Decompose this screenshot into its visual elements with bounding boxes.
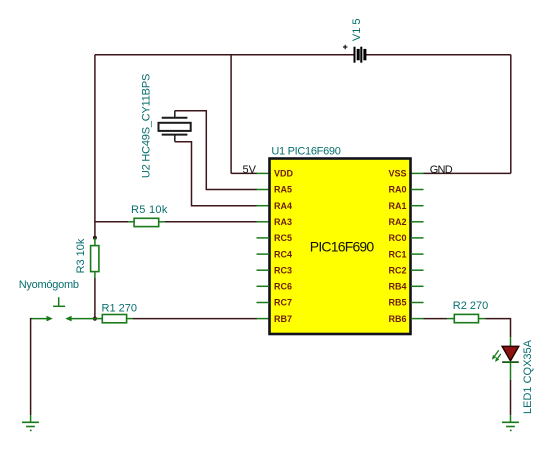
svg-text:RA1: RA1 xyxy=(388,201,406,211)
pin stub RA5 xyxy=(257,189,270,191)
pin stub RA1 xyxy=(411,205,424,207)
crystal bottom plate xyxy=(162,134,188,136)
ground symbol left xyxy=(22,422,39,430)
crystal top plate xyxy=(162,117,188,119)
resistor R1 right pin xyxy=(127,318,133,320)
LED cathode pin xyxy=(510,362,512,380)
pin stub RB6 xyxy=(411,318,424,320)
svg-text:VDD: VDD xyxy=(274,169,294,179)
pushbutton left contact xyxy=(31,316,53,322)
battery plate short xyxy=(363,49,366,60)
wire crystal bottom to RA4 xyxy=(175,142,257,206)
resistor R2 xyxy=(454,314,478,322)
wire rail to R5 xyxy=(95,221,128,223)
wire top rail left (battery + to left rail) xyxy=(95,54,355,56)
svg-text:RB5: RB5 xyxy=(388,298,406,308)
resistor R3 top pin xyxy=(94,238,96,246)
resistor R3 bottom pin xyxy=(94,272,96,278)
crystal top pin xyxy=(174,111,176,118)
svg-text:U2 HC49S_CY11BPS: U2 HC49S_CY11BPS xyxy=(140,74,152,178)
pin stub VDD xyxy=(257,172,270,174)
wire R5 to RA3 xyxy=(165,221,257,223)
resistor R2 left pin xyxy=(447,318,454,320)
pin stub RC5 xyxy=(257,237,270,239)
svg-text:RA2: RA2 xyxy=(388,217,406,227)
battery V1 xyxy=(355,47,365,63)
wire R1 to RB7 xyxy=(133,318,257,320)
pin stub RC3 xyxy=(257,269,270,271)
ground pin right xyxy=(510,415,512,422)
svg-text:PIC16F690: PIC16F690 xyxy=(310,238,375,254)
svg-text:V1 5: V1 5 xyxy=(351,18,363,41)
pushbutton right contact xyxy=(65,316,95,322)
svg-text:R1 270: R1 270 xyxy=(102,302,137,314)
resistor R2 right pin xyxy=(479,318,486,320)
svg-text:U1 PIC16F690: U1 PIC16F690 xyxy=(271,146,340,158)
battery plate short - xyxy=(357,49,360,60)
svg-text:RC0: RC0 xyxy=(388,233,406,243)
pin stub RA2 xyxy=(411,221,424,223)
pin stub RB7 xyxy=(257,318,270,320)
battery plate long xyxy=(360,47,362,63)
ground symbol right xyxy=(502,422,519,430)
pin stub RC7 xyxy=(257,302,270,304)
svg-text:5V: 5V xyxy=(243,164,257,176)
crystal body xyxy=(159,123,191,131)
svg-text:RC4: RC4 xyxy=(274,249,292,259)
svg-text:RC5: RC5 xyxy=(274,233,292,243)
svg-text:R3 10k: R3 10k xyxy=(75,238,87,273)
resistor R5 right pin xyxy=(159,221,165,223)
wire button to ground xyxy=(30,319,33,416)
wire 5V to VDD pin xyxy=(231,172,257,174)
svg-text:GND: GND xyxy=(430,164,453,176)
wire R3 to button junction xyxy=(94,278,96,319)
svg-text:RA3: RA3 xyxy=(274,217,292,227)
LED arrow 2 xyxy=(495,354,501,362)
crystal U2 xyxy=(159,111,191,142)
resistor R3 xyxy=(91,246,99,272)
svg-text:RC2: RC2 xyxy=(388,265,406,275)
wire left rail down xyxy=(94,55,96,238)
ground pin left xyxy=(30,415,32,422)
svg-text:RC6: RC6 xyxy=(274,282,292,292)
wire LED to ground xyxy=(510,380,512,415)
crystal bottom pin xyxy=(174,135,176,142)
svg-text:RB6: RB6 xyxy=(388,314,406,324)
pin stub RB4 xyxy=(411,285,424,287)
IC U1 PIC16F690 body xyxy=(270,159,411,335)
pin stub RC6 xyxy=(257,285,270,287)
pin stub RC1 xyxy=(411,253,424,255)
wire top rail right (battery - to right corner) xyxy=(365,54,511,56)
pin stub RA3 xyxy=(257,221,270,223)
pushbutton actuator xyxy=(53,297,65,306)
pin stub RC2 xyxy=(411,269,424,271)
pin stub VSS xyxy=(411,172,424,174)
wire R2 to LED xyxy=(486,319,511,337)
svg-text:RC3: RC3 xyxy=(274,265,292,275)
svg-text:RA5: RA5 xyxy=(274,185,292,195)
pin stub RA0 xyxy=(411,189,424,191)
wire right drop to VSS xyxy=(510,55,512,174)
resistor R5 left pin xyxy=(128,221,134,223)
pin stub RC4 xyxy=(257,253,270,255)
svg-text:RC1: RC1 xyxy=(388,249,406,259)
battery plus sign xyxy=(343,45,347,49)
wire crystal top to RA5 xyxy=(175,111,257,190)
pin stub RA4 xyxy=(257,205,270,207)
pin stub RB5 xyxy=(411,302,424,304)
svg-text:RA0: RA0 xyxy=(388,185,406,195)
LED LED1 xyxy=(502,346,519,362)
battery plate long + xyxy=(354,47,356,63)
junction dot button/R1 xyxy=(93,317,97,321)
junction dot above R3 xyxy=(93,236,97,240)
wire VSS to right drop xyxy=(424,172,511,174)
node 5V wire down to VDD xyxy=(230,55,232,174)
LED anode pin xyxy=(510,337,512,346)
svg-text:RC7: RC7 xyxy=(274,298,292,308)
resistor R5 xyxy=(134,218,159,226)
svg-text:LED1 CQX35A: LED1 CQX35A xyxy=(522,339,534,414)
svg-text:RA4: RA4 xyxy=(274,201,292,211)
svg-text:Nyomógomb: Nyomógomb xyxy=(19,279,79,291)
svg-text:R5 10k: R5 10k xyxy=(131,204,168,216)
resistor R1 xyxy=(102,315,126,323)
svg-text:R2 270: R2 270 xyxy=(453,300,488,312)
svg-text:RB4: RB4 xyxy=(388,282,406,292)
svg-text:VSS: VSS xyxy=(388,169,406,179)
pin stub RC0 xyxy=(411,237,424,239)
svg-text:RB7: RB7 xyxy=(274,314,292,324)
LED arrow 1 xyxy=(492,350,499,359)
resistor R1 left pin xyxy=(95,318,102,320)
wire RB6 to R2 xyxy=(424,318,448,320)
